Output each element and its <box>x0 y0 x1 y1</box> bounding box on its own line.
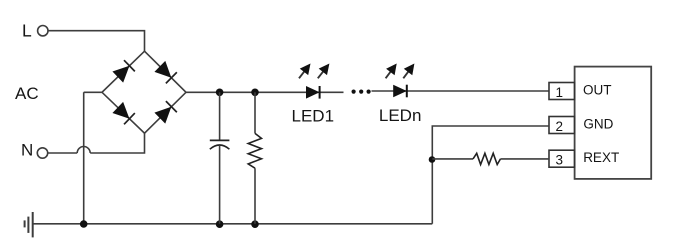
ellipsis dots between LEDs <box>352 90 356 94</box>
capacitor C1 top lead <box>219 92 221 140</box>
svg-text:1: 1 <box>556 85 564 100</box>
svg-text:LED1: LED1 <box>292 106 335 125</box>
LED LEDn emission arrow 2 <box>403 70 409 78</box>
pin 3 box <box>549 150 575 167</box>
IC U1 body <box>575 67 652 179</box>
junction dot DC- on ground rail <box>80 220 88 228</box>
LED LEDn emission arrow 1 <box>386 70 392 78</box>
wire REXT resistor to pin 3 <box>501 158 550 160</box>
diode D2 (upper-right) of bridge <box>154 61 176 83</box>
svg-text:L: L <box>22 21 32 41</box>
capacitor C1 bottom lead <box>219 146 221 224</box>
LED LED1 triangle <box>306 86 320 99</box>
capacitor C1 flat plate <box>210 139 230 141</box>
wire LEDn to OUT pin <box>372 90 550 92</box>
svg-text:REXT: REXT <box>583 150 619 165</box>
wire L terminal to bridge top vertex <box>48 31 145 52</box>
resistor R1 bottom lead <box>254 168 256 224</box>
diode D4 (lower-right) of bridge <box>154 101 176 123</box>
wire bridge DC+ to LED1 <box>186 91 344 93</box>
junction dot capacitor on ground rail <box>216 220 224 228</box>
LED LEDn triangle <box>393 85 407 98</box>
LED LED1 emission arrow 2 <box>318 70 324 78</box>
junction dot capacitor top <box>216 89 224 97</box>
pin 2 box <box>549 117 575 134</box>
resistor REXT zigzag <box>473 153 501 164</box>
diode D1 (upper-left) of bridge <box>112 60 134 82</box>
wire bridge left vertex (DC-) stub <box>84 91 102 93</box>
ground rail wire <box>34 223 433 225</box>
diode D3 (lower-left) of bridge <box>112 102 134 124</box>
wire hop over DC- vertical <box>77 147 90 154</box>
svg-text:LEDn: LEDn <box>379 106 422 125</box>
junction dot resistor top <box>251 89 259 97</box>
pin 1 box <box>549 83 575 100</box>
wire hop to bridge bottom vertex <box>90 133 144 153</box>
wire GND pin to ground rail <box>432 126 549 224</box>
LED LEDn cathode bar <box>406 85 408 98</box>
resistor R1 top lead <box>254 92 256 133</box>
junction node dot REXT branch <box>429 156 436 163</box>
bridge rectifier diamond outline <box>102 51 186 133</box>
svg-text:GND: GND <box>583 116 613 131</box>
svg-text:3: 3 <box>556 153 564 168</box>
wire N terminal to hop <box>48 152 77 154</box>
wire node to REXT resistor <box>432 158 473 160</box>
svg-text:OUT: OUT <box>583 82 612 97</box>
capacitor C1 curved plate <box>210 145 230 149</box>
svg-text:N: N <box>21 141 33 160</box>
wire DC- vertical down to ground rail <box>83 92 85 224</box>
svg-text:AC: AC <box>15 84 39 103</box>
terminal circle L <box>38 26 48 36</box>
svg-text:2: 2 <box>556 119 564 134</box>
ground symbol <box>25 212 33 237</box>
resistor R1 zigzag body <box>248 133 261 168</box>
LED LED1 cathode bar <box>319 86 321 99</box>
terminal circle N <box>37 148 47 158</box>
LED LED1 emission arrow 1 <box>299 70 305 78</box>
junction dot resistor on ground rail <box>251 220 259 228</box>
